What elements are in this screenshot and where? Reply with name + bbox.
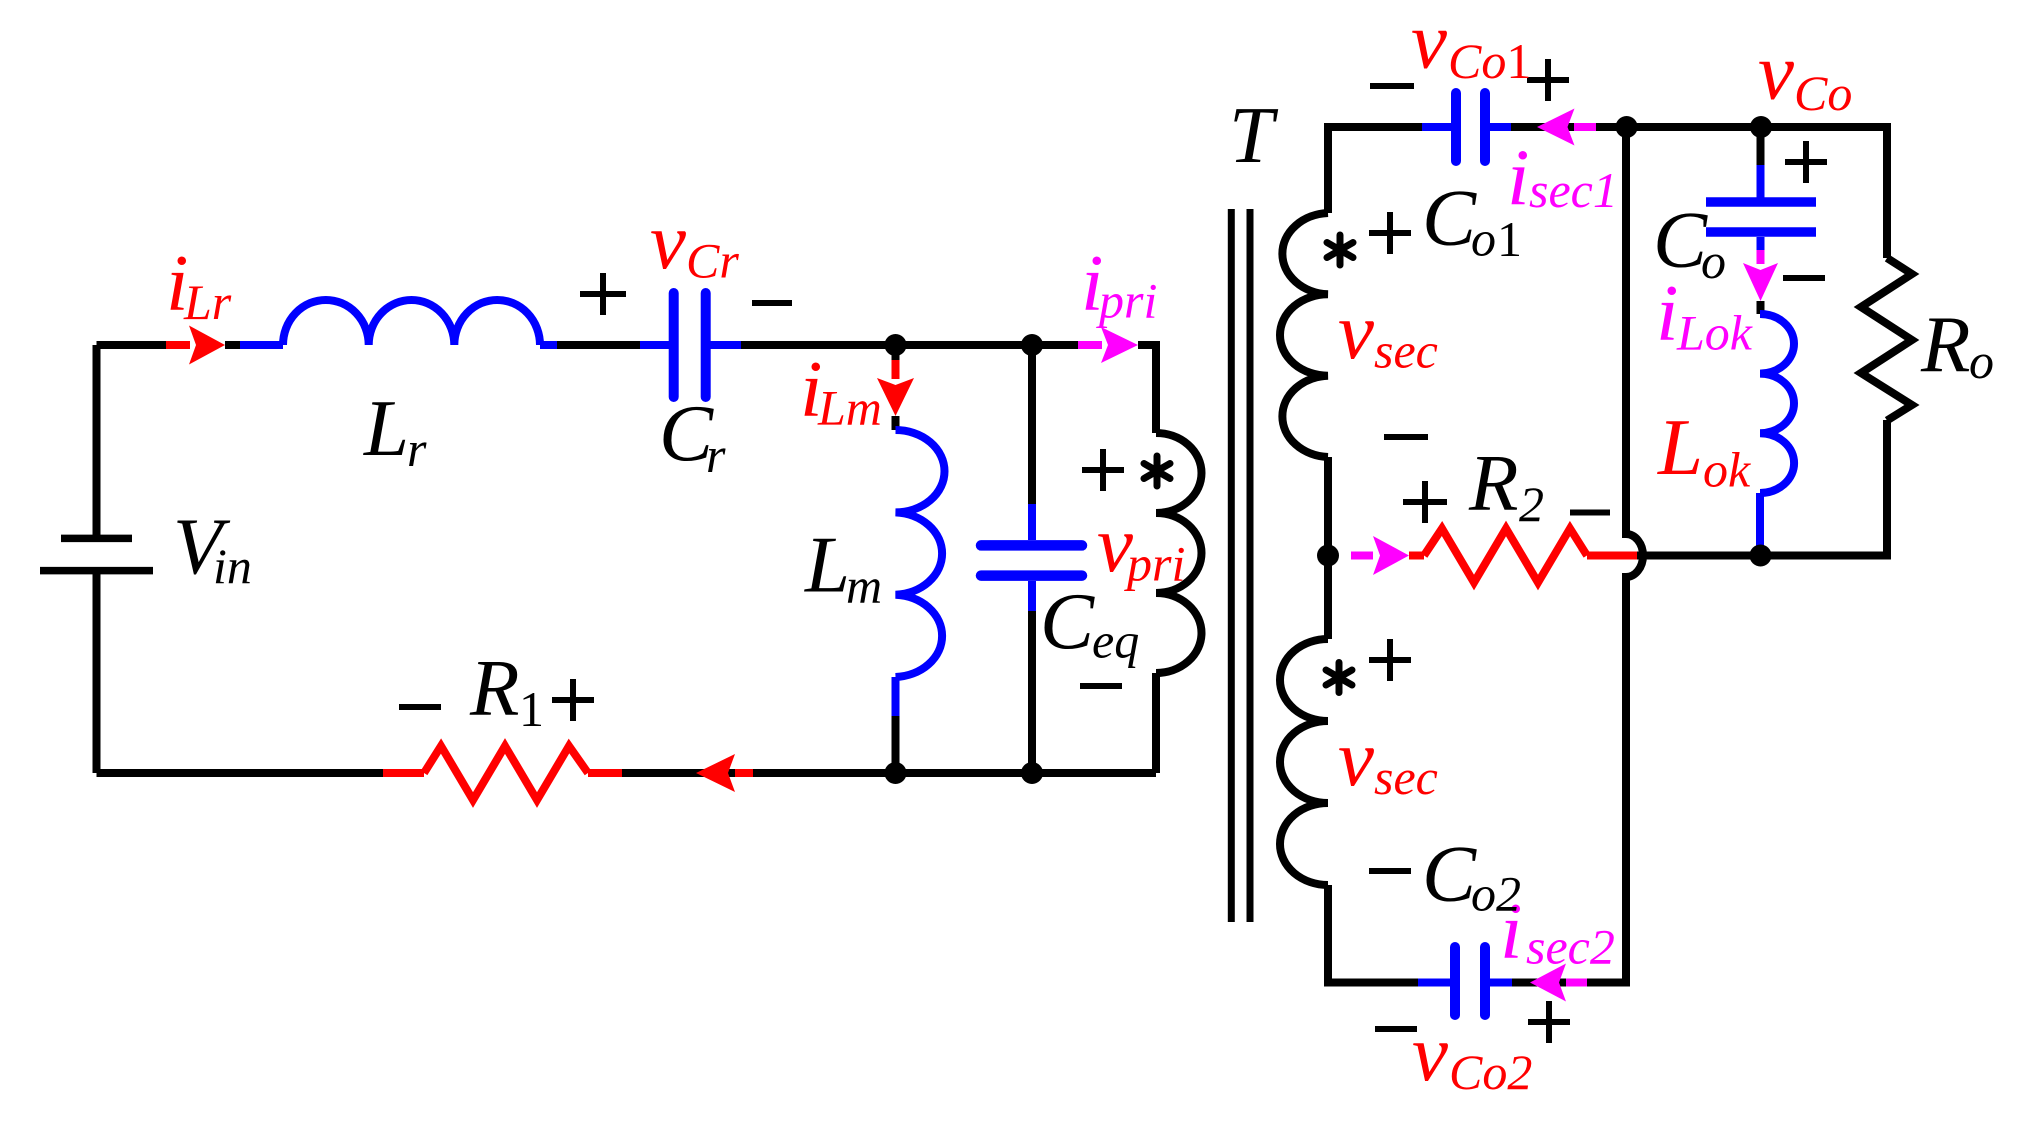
svg-text:L: L (1657, 402, 1703, 492)
svg-text:Lok: Lok (1676, 305, 1753, 361)
svg-text:v: v (1758, 27, 1794, 117)
svg-text:sec1: sec1 (1529, 162, 1618, 218)
svg-text:v: v (650, 196, 686, 286)
svg-text:1: 1 (519, 681, 544, 737)
svg-text:in: in (213, 538, 252, 594)
svg-text:o: o (1969, 333, 1994, 389)
svg-text:o: o (1701, 233, 1726, 289)
svg-text:Lr: Lr (183, 274, 232, 330)
svg-text:pri: pri (1096, 273, 1157, 329)
svg-text:C: C (1653, 195, 1708, 285)
svg-text:L: L (804, 520, 850, 610)
svg-text:2: 2 (1519, 476, 1544, 532)
svg-text:1: 1 (1497, 211, 1522, 267)
svg-text:C: C (1040, 577, 1095, 667)
svg-text:v: v (1338, 713, 1374, 803)
svg-text:sec: sec (1374, 749, 1438, 805)
svg-text:ok: ok (1703, 442, 1751, 498)
svg-text:R: R (1920, 299, 1970, 389)
svg-text:o2: o2 (1471, 866, 1521, 922)
svg-text:T: T (1229, 92, 1279, 180)
svg-text:sec2: sec2 (1526, 919, 1615, 975)
svg-text:pri: pri (1124, 536, 1185, 592)
svg-text:R: R (1468, 438, 1518, 528)
svg-text:sec: sec (1374, 323, 1438, 379)
svg-text:Co: Co (1794, 65, 1852, 121)
svg-text:r: r (706, 427, 726, 483)
svg-text:m: m (846, 558, 882, 614)
svg-text:C: C (1422, 829, 1477, 919)
svg-text:r: r (407, 421, 427, 477)
svg-text:Cr: Cr (686, 233, 739, 289)
svg-text:eq: eq (1092, 613, 1139, 669)
svg-text:v: v (1338, 286, 1374, 376)
svg-text:C: C (1422, 173, 1477, 263)
svg-text:Co1: Co1 (1448, 33, 1531, 89)
svg-text:Co2: Co2 (1449, 1044, 1532, 1100)
svg-text:R: R (469, 643, 519, 733)
svg-text:Lm: Lm (817, 380, 882, 436)
svg-text:i: i (1507, 133, 1530, 223)
svg-text:L: L (363, 383, 409, 473)
svg-text:v: v (1412, 1008, 1448, 1098)
svg-text:v: v (1411, 0, 1447, 86)
svg-text:o: o (1471, 211, 1496, 267)
